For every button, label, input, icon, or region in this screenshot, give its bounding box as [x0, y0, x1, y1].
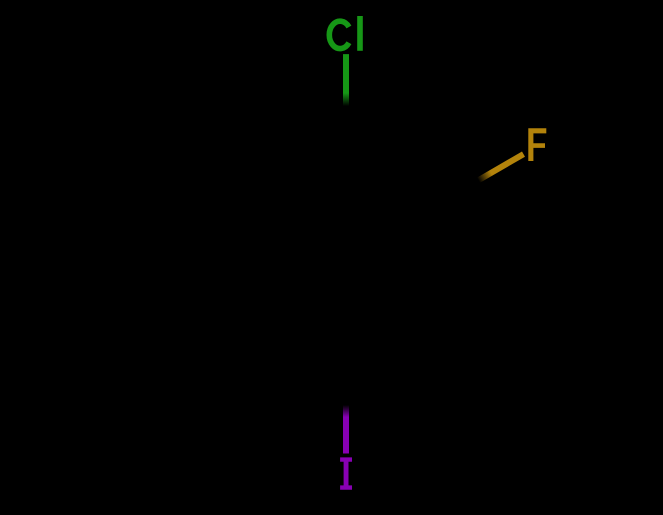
- bond C4-I (purple half-bond fading to black): [343, 405, 349, 454]
- benzene ring bond C1-C2: [346, 155, 435, 206]
- benzene ring bond C2-C3: [432, 206, 438, 308]
- atom label Cl : letter C: [329, 21, 349, 48]
- bond C1-Cl (green half-bond fading to black): [343, 54, 349, 106]
- atom label F: [528, 128, 546, 161]
- atom label I: [340, 457, 352, 489]
- bond C2-F (gold half-bond fading to black): [479, 154, 524, 180]
- benzene ring bond C6-C1: [257, 155, 346, 206]
- benzene ring bond C3-C4: [346, 309, 435, 360]
- atom label Cl : letter l: [357, 16, 363, 51]
- benzene ring bond C4-C5: [257, 309, 346, 360]
- benzene ring bond C5-C6: [254, 206, 260, 308]
